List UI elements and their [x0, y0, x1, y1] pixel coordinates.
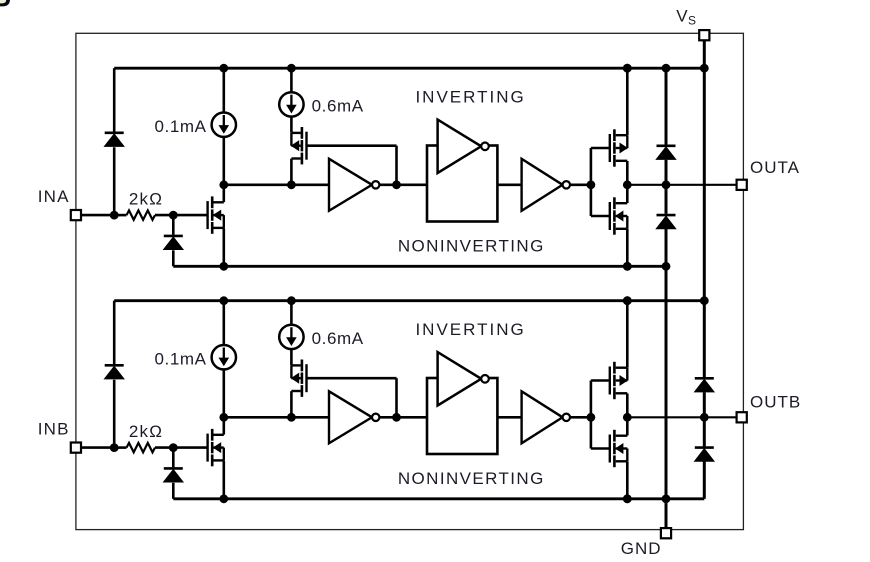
svg-text:INA: INA	[38, 187, 70, 206]
svg-text:0.6mA: 0.6mA	[312, 329, 364, 348]
svg-text:0.6mA: 0.6mA	[312, 97, 364, 116]
svg-text:INB: INB	[38, 420, 70, 439]
svg-text:GND: GND	[621, 539, 662, 558]
svg-text:2kΩ: 2kΩ	[129, 189, 163, 208]
svg-text:INVERTING: INVERTING	[415, 320, 525, 339]
svg-text:0.1mA: 0.1mA	[154, 117, 206, 136]
svg-text:V: V	[676, 7, 688, 26]
svg-text:2kΩ: 2kΩ	[129, 422, 163, 441]
svg-text:NONINVERTING: NONINVERTING	[398, 469, 545, 488]
svg-text:OUTB: OUTB	[750, 393, 801, 412]
svg-text:0.1mA: 0.1mA	[154, 350, 206, 369]
svg-text:INVERTING: INVERTING	[415, 87, 525, 106]
svg-text:NONINVERTING: NONINVERTING	[398, 236, 545, 255]
svg-text:OUTA: OUTA	[750, 158, 800, 177]
svg-text:S: S	[688, 14, 696, 28]
